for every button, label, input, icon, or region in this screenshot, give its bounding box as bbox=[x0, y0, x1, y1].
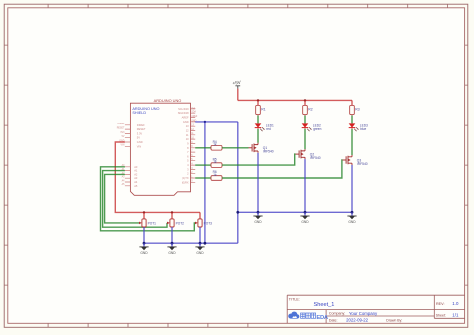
svg-text:1k: 1k bbox=[213, 173, 217, 177]
node source bus left T bbox=[236, 211, 239, 214]
svg-text:GND: GND bbox=[254, 220, 262, 224]
svg-text:A1: A1 bbox=[134, 169, 138, 173]
node Q2 source bus junction bbox=[304, 211, 307, 214]
arduino body bbox=[130, 103, 190, 195]
svg-text:(0)RX: (0)RX bbox=[182, 180, 189, 184]
svg-text:RESET: RESET bbox=[137, 127, 146, 131]
transistor Q3 IRF540 bbox=[343, 155, 353, 165]
svg-text:(1)TX: (1)TX bbox=[182, 176, 189, 180]
svg-text:POT3: POT3 bbox=[204, 221, 213, 225]
arduino right pins bbox=[191, 109, 196, 182]
wire POT2 to gnd bus bbox=[171, 227, 173, 243]
node Q3 source bus junction bbox=[351, 211, 354, 214]
wire Q2 source to bus bbox=[304, 159, 306, 212]
wire Q3 source to bus bbox=[351, 165, 353, 212]
wire R6 to Q3 gate bbox=[222, 160, 343, 178]
svg-text:1k: 1k bbox=[213, 143, 217, 147]
potentiometer POT3 bbox=[195, 212, 212, 227]
node pot bus junction left bbox=[204, 242, 207, 245]
svg-text:Sheet_1: Sheet_1 bbox=[314, 302, 335, 308]
node Q1 source bus junction bbox=[257, 211, 260, 214]
transistor Q1 IRF540 bbox=[249, 143, 259, 153]
svg-text:VIN: VIN bbox=[137, 144, 141, 148]
svg-text:TITLE:: TITLE: bbox=[289, 297, 300, 301]
svg-text:R2: R2 bbox=[308, 108, 312, 112]
resistor R3 bbox=[350, 105, 355, 114]
arduino left pin number labels group B bbox=[122, 164, 126, 186]
svg-text:5V: 5V bbox=[137, 136, 140, 140]
arduino left pins group B (A0-A5) bbox=[125, 167, 130, 186]
wire D-pin to R4 bbox=[195, 147, 211, 149]
wire mosfet source bus bbox=[238, 211, 352, 213]
svg-text:green: green bbox=[313, 127, 321, 131]
node POT1 bus junction bbox=[143, 242, 146, 245]
wire R1 to LED1 bbox=[257, 114, 259, 117]
ground under POT1 bbox=[139, 243, 148, 255]
node rail junction R1 bbox=[257, 99, 259, 101]
LED LED2 bbox=[302, 123, 312, 131]
resistor R5 bbox=[211, 163, 222, 168]
svg-text:Drawn By:: Drawn By: bbox=[386, 319, 402, 323]
svg-text:ARDUINO UNO: ARDUINO UNO bbox=[154, 98, 182, 103]
ground under POT3 bbox=[195, 243, 204, 255]
svg-text:SDA/D18: SDA/D18 bbox=[178, 111, 189, 115]
svg-text:Your Company: Your Company bbox=[349, 311, 378, 316]
svg-text:GND: GND bbox=[196, 251, 204, 255]
wire R4 to Q1 gate bbox=[222, 147, 249, 149]
svg-text:3.3V: 3.3V bbox=[137, 131, 143, 135]
svg-text:POT1: POT1 bbox=[148, 221, 157, 225]
svg-text:2022-09-22: 2022-09-22 bbox=[346, 318, 369, 323]
svg-text:1k: 1k bbox=[213, 160, 217, 164]
wire POT1 to gnd bus bbox=[143, 227, 145, 243]
svg-text:SHIELD: SHIELD bbox=[132, 111, 146, 115]
svg-text:1/1: 1/1 bbox=[452, 313, 459, 318]
svg-text:R3: R3 bbox=[355, 108, 359, 112]
LED LED1 bbox=[255, 123, 265, 131]
resistor R4 bbox=[211, 146, 222, 151]
ground under Q2 bbox=[300, 212, 309, 224]
wire GND branch vertical left bbox=[204, 122, 206, 243]
wire A2 to POT3 wiper bbox=[101, 167, 196, 231]
wire LED3 to Q3 drain bbox=[351, 128, 353, 129]
logo cloud icon bbox=[288, 312, 299, 319]
svg-text:SCL/D19: SCL/D19 bbox=[178, 107, 189, 111]
wire LED2 to Q2 drain bbox=[304, 128, 306, 129]
node pot rail junction POT1 bbox=[143, 211, 145, 213]
ground under Q3 bbox=[347, 212, 356, 224]
wire A1 to POT2 wiper bbox=[103, 171, 167, 228]
svg-text:VIN: VIN bbox=[121, 145, 125, 147]
resistor R2 bbox=[303, 105, 308, 114]
svg-text:A4: A4 bbox=[134, 180, 138, 184]
wire Q1 source to bus bbox=[257, 153, 259, 213]
node POT3 bus junction bbox=[199, 242, 202, 245]
arduino left pins group A bbox=[125, 125, 130, 147]
svg-text:SDA: SDA bbox=[191, 111, 196, 114]
svg-text:GND: GND bbox=[140, 251, 148, 255]
arduino left pin names group B bbox=[134, 165, 138, 188]
ground under Q1 bbox=[253, 212, 262, 224]
wire rail to R3 bbox=[351, 100, 353, 105]
wire pot ground bus bbox=[144, 242, 238, 244]
svg-text:5V: 5V bbox=[122, 136, 125, 138]
svg-text:AREF: AREF bbox=[182, 116, 189, 120]
wire +5V vertical drop bbox=[237, 89, 239, 101]
svg-text:IOREF: IOREF bbox=[137, 123, 145, 127]
svg-text:Sheet:: Sheet: bbox=[436, 313, 446, 317]
svg-text:A5: A5 bbox=[134, 184, 138, 188]
transistor Q2 IRF540 bbox=[296, 149, 306, 159]
svg-text:GND: GND bbox=[168, 251, 176, 255]
wire rail to R1 bbox=[257, 100, 259, 105]
svg-text:IOREF: IOREF bbox=[117, 123, 125, 125]
resistor R6 bbox=[211, 176, 222, 181]
svg-text:1.0: 1.0 bbox=[452, 301, 459, 306]
svg-text:A3: A3 bbox=[134, 176, 138, 180]
svg-text:EDA: EDA bbox=[316, 315, 328, 321]
svg-text:IRF540: IRF540 bbox=[357, 162, 368, 166]
svg-text:REV:: REV: bbox=[436, 302, 444, 306]
wire D-pin to R5 bbox=[195, 164, 211, 166]
node rail junction R2 bbox=[304, 99, 306, 101]
wire A0 to POT1 wiper bbox=[105, 174, 139, 223]
arduino right pin number labels bbox=[191, 107, 198, 182]
wire R5 to Q2 gate bbox=[222, 154, 296, 165]
resistor R1 bbox=[256, 105, 261, 114]
arduino left pin names group A bbox=[137, 123, 146, 149]
potentiometer POT2 bbox=[167, 212, 184, 227]
arduino left pin number labels group A bbox=[117, 123, 125, 147]
svg-text:Date:: Date: bbox=[329, 318, 338, 322]
wire +5V horizontal rail bbox=[238, 99, 352, 101]
svg-text:red: red bbox=[266, 127, 271, 131]
svg-text:GND: GND bbox=[137, 140, 143, 144]
node POT2 bus junction bbox=[171, 242, 174, 245]
svg-text:Company:: Company: bbox=[329, 312, 345, 316]
wire GND main vertical bbox=[237, 122, 239, 243]
svg-text:AREF: AREF bbox=[191, 115, 198, 118]
wire LED1 to Q1 drain bbox=[257, 128, 259, 129]
svg-text:R1: R1 bbox=[261, 108, 265, 112]
ground under POT2 bbox=[167, 243, 176, 255]
wire R2 to LED2 bbox=[304, 114, 306, 117]
wire rail to R2 bbox=[304, 100, 306, 105]
svg-text:3V3: 3V3 bbox=[120, 132, 125, 134]
svg-text:GND: GND bbox=[301, 220, 309, 224]
svg-text:A0: A0 bbox=[134, 165, 138, 169]
wire GND pin horizontal bbox=[195, 121, 238, 123]
node GND branch junction bbox=[204, 121, 206, 123]
svg-text:IRF540: IRF540 bbox=[263, 150, 274, 154]
potentiometer POT1 bbox=[139, 212, 156, 227]
LED LED3 bbox=[349, 123, 359, 131]
wire R3 to LED3 bbox=[351, 114, 353, 117]
svg-text:IRF540: IRF540 bbox=[310, 156, 321, 160]
wire D-pin to R6 bbox=[195, 177, 211, 179]
wire POT3 to gnd bus bbox=[199, 227, 201, 243]
svg-text:SCL: SCL bbox=[191, 107, 196, 109]
svg-text:blue: blue bbox=[360, 127, 366, 131]
svg-text:GND: GND bbox=[183, 120, 189, 124]
svg-text:RESET: RESET bbox=[117, 128, 125, 130]
svg-text:A2: A2 bbox=[134, 172, 138, 176]
node pot rail junction POT2 bbox=[171, 211, 173, 213]
wire 5V pin to pot rail bbox=[115, 142, 200, 212]
+5V power symbol bbox=[232, 80, 242, 89]
svg-text:GND: GND bbox=[348, 220, 356, 224]
arduino right pin names bbox=[178, 107, 189, 184]
svg-text:POT2: POT2 bbox=[176, 221, 185, 225]
logo CJK glyph blocks bbox=[301, 313, 316, 318]
